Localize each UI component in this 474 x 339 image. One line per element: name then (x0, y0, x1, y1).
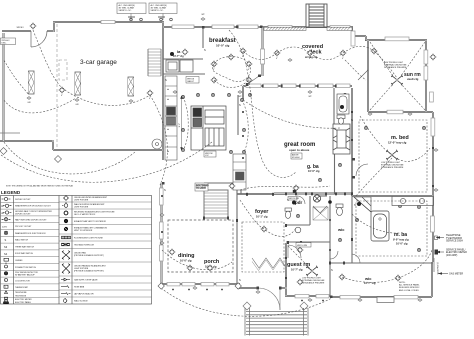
wire deck to sun (374, 51, 397, 78)
furnace circle (152, 139, 162, 149)
window guest bottom 2 (316, 295, 329, 298)
wall wic left (329, 196, 331, 297)
svg-text:TO LNDG: TO LNDG (196, 188, 206, 190)
svg-text:w/ t&g clg: w/ t&g clg (305, 55, 318, 59)
svg-text:S3: S3 (4, 245, 8, 249)
window dining left 2 (160, 222, 164, 239)
light guest closet (297, 247, 304, 254)
garage front diamonds (0, 148, 62, 163)
front door swing (258, 288, 280, 310)
front entry steps (243, 288, 308, 336)
svg-text:WP/GFI: WP/GFI (17, 27, 24, 29)
window guest bottom 1 (295, 295, 309, 298)
wall garage bottom (53, 149, 163, 151)
wire right wall (398, 250, 432, 278)
svg-text:(2) 20A CKTS: (2) 20A CKTS (436, 262, 439, 275)
window dining left 1 (160, 188, 164, 205)
window greatroom wall 3 (281, 84, 296, 87)
guest rm boxed label (296, 243, 311, 248)
legend left texts (15, 199, 52, 304)
light breakfast 1 (211, 61, 218, 68)
wall house top (breakfast/deck) (163, 26, 353, 28)
svg-text:GAS SUPPLY WITH VALVE: GAS SUPPLY WITH VALVE (74, 278, 98, 281)
bay window seat front (252, 258, 285, 271)
service panel note (436, 251, 444, 253)
window dining left 3 (160, 245, 164, 261)
svg-text:CAB HT: CAB HT (187, 80, 195, 83)
window porch bottom 2 (182, 283, 195, 286)
svg-text:foyer: foyer (255, 209, 269, 215)
svg-text:LEGEND: LEGEND (1, 190, 21, 195)
svg-text:(PROVIDE GUIDANCE SUPPORT): (PROVIDE GUIDANCE SUPPORT) (74, 254, 104, 257)
svg-text:W/GUIDANCE PRE-WIRE: W/GUIDANCE PRE-WIRE (302, 281, 325, 284)
light breakfast 5 (246, 77, 253, 84)
back stairs (148, 49, 161, 76)
svg-text:A.C. CHILLER(S): A.C. CHILLER(S) (119, 4, 135, 7)
wall stub right of garage entry door (47, 30, 54, 32)
wire breakfast loop (212, 57, 250, 82)
laundry appliances (166, 60, 193, 72)
svg-text:TELE AND INTERCOM: TELE AND INTERCOM (74, 244, 94, 247)
wall deck right corner (352, 28, 366, 36)
svg-text:porch: porch (204, 259, 220, 265)
window breakfast top 1 (172, 25, 194, 29)
wall laundry/breakfast (202, 27, 204, 48)
recessed pdr (296, 214, 299, 217)
wall mba top (352, 195, 433, 197)
wire sunroom entry (345, 60, 366, 80)
svg-text:S4: S4 (4, 252, 8, 256)
wall guest bottom (285, 295, 330, 297)
svg-text:GFI: GFI (75, 104, 79, 106)
svg-text:DUPLEX OUTLET: DUPLEX OUTLET (15, 214, 31, 216)
wall garage bottom left (0, 140, 54, 142)
light wic low 1 (339, 274, 346, 281)
legend left row lines (1, 202, 60, 297)
legend left symbols (1, 197, 11, 303)
entry columns (243, 302, 308, 310)
wall dining/porch bottom (160, 283, 240, 285)
svg-text:10'-0" clg: 10'-0" clg (180, 259, 192, 263)
left edge boxed label (1, 38, 16, 45)
svg-text:dining: dining (178, 253, 195, 259)
wall dining left (161, 183, 163, 284)
svg-text:ELECTRIC PANEL: ELECTRIC PANEL (15, 301, 31, 304)
svg-text:m. ba: m. ba (394, 232, 407, 238)
svg-text:SERVICE DISH: SERVICE DISH (446, 240, 463, 243)
window greatroom wall 2 (263, 84, 278, 87)
recessed great room (248, 93, 251, 96)
svg-text:36" MIN. CLEAR: 36" MIN. CLEAR (151, 7, 167, 10)
light garage door (30, 23, 37, 30)
gba fixtures (337, 94, 349, 124)
legend right row lines (59, 202, 152, 297)
svg-text:db: db (167, 151, 169, 153)
kitchen cabinets column (152, 76, 177, 160)
porch wall end diamonds (158, 283, 241, 289)
light stair (229, 183, 236, 190)
svg-text:open to above: open to above (289, 148, 310, 152)
window breakfast top 3 (237, 25, 258, 29)
wire garage to kitchen (150, 95, 167, 185)
wire garage big sweep (1, 142, 212, 182)
light sunrm corner (430, 54, 437, 61)
window wall jamb ticks (262, 85, 337, 88)
light wic low 2 (395, 275, 402, 282)
wall mbed right exterior (432, 112, 434, 262)
kitchen dimension line (179, 96, 183, 150)
recessed gba (318, 178, 321, 181)
svg-text:VER 10 RM: VER 10 RM (297, 245, 307, 247)
svg-text:wic: wic (364, 276, 372, 281)
recessed kitchen (181, 95, 184, 98)
wall dots (161, 111, 434, 279)
wall guest top (286, 241, 330, 243)
fireplace (333, 124, 350, 154)
light breakfast 2 (228, 54, 235, 61)
window porch bottom 4 (216, 283, 229, 286)
wall left-wing left (3, 33, 5, 141)
fan guest (306, 266, 318, 277)
wall garage bottom step (52, 140, 54, 150)
svg-text:ELECTRIC METER: ELECTRIC METER (15, 299, 32, 301)
extra jamb ticks (162, 26, 353, 299)
window greatroom wall 4 (300, 84, 315, 87)
wall great room left upper (242, 86, 244, 100)
light garage 1 (59, 87, 66, 94)
kitchen island (191, 106, 226, 150)
counter line left wing (0, 132, 20, 134)
svg-text:WEATHERPROOF JUNCTION BOX: WEATHERPROOF JUNCTION BOX (15, 232, 46, 235)
carport posts (29, 71, 134, 96)
garage bay divider dashed (57, 24, 67, 148)
svg-text:TELEVISION: TELEVISION (15, 296, 27, 298)
switch marks (165, 78, 167, 82)
svg-text:W/GUIDANCE PRE-WIRE: W/GUIDANCE PRE-WIRE (384, 66, 407, 69)
svg-text:3-car garage: 3-car garage (80, 59, 117, 66)
svg-text:db: db (167, 129, 169, 131)
svg-text:DISC.: DISC. (2, 43, 8, 45)
wire mbed (360, 116, 430, 161)
svg-text:12'-0" tray clg: 12'-0" tray clg (388, 141, 407, 145)
svg-text:42 HIGH: 42 HIGH (292, 157, 300, 159)
svg-text:WALL SWITCH: WALL SWITCH (15, 239, 29, 242)
svg-text:CHIMES: CHIMES (15, 260, 23, 262)
wire wic low (342, 277, 398, 282)
svg-text:VERIFY LOC.: VERIFY LOC. (151, 10, 164, 12)
svg-text:36" MIN. CLEAR: 36" MIN. CLEAR (119, 7, 135, 10)
svg-text:220 VOLT OUTLET: 220 VOLT OUTLET (15, 226, 32, 228)
light entry out (297, 279, 304, 286)
wire foyer-dining (162, 250, 232, 270)
window sunroom top (385, 37, 409, 41)
wall garage right (162, 22, 164, 160)
svg-text:LOC: LOC (205, 155, 210, 157)
svg-text:wic: wic (337, 227, 345, 232)
vanity mba (392, 197, 433, 206)
window mbed right (431, 118, 435, 136)
window wic bottom 2 (394, 296, 418, 299)
chimney (306, 4, 327, 27)
svg-text:GFI: GFI (1, 213, 4, 215)
svg-text:10'-1" clg: 10'-1" clg (256, 215, 268, 219)
wall kitchen right run (237, 95, 239, 135)
wire foyer (240, 200, 296, 236)
svg-text:TELEPHONE: TELEPHONE (15, 292, 27, 294)
wire deck s4 (343, 46, 374, 53)
wire guest (288, 246, 312, 271)
recessed mba (355, 218, 358, 221)
toilet pdr (285, 208, 292, 218)
fan note m.bed (381, 162, 404, 169)
window porch bottom 3 (201, 283, 214, 286)
wire mbed low (356, 158, 392, 196)
vault sunrm diagonals (370, 42, 425, 110)
wall pdr right (309, 196, 311, 225)
light foyer (261, 226, 268, 233)
toilet m.ba (336, 204, 343, 216)
wall foyer west upper (240, 155, 242, 194)
window greatroom wall 6 (336, 84, 350, 87)
jamb ticks gallery wall (246, 75, 355, 290)
svg-text:THERMOSTAT: THERMOSTAT (15, 286, 29, 289)
svg-text:10'-0" clg: 10'-0" clg (396, 242, 408, 246)
svg-text:db: db (167, 89, 169, 91)
meter symbols on wall (435, 250, 439, 255)
light breakfast 4 (211, 77, 218, 84)
svg-text:S: S (5, 238, 7, 242)
wall gba left (333, 88, 335, 124)
svg-text:HALF SWITCHED DUPLEX OUTLET: HALF SWITCHED DUPLEX OUTLET (15, 218, 47, 221)
wire breakfast lower (214, 80, 249, 88)
wall left-wing top (2, 30, 31, 32)
tiny outlet labels (17, 14, 313, 106)
svg-text:9'-0" tray clg: 9'-0" tray clg (393, 238, 409, 242)
wall hall top (foyer north) (237, 193, 286, 195)
svg-text:LIGHT FIXTURE: LIGHT FIXTURE (74, 199, 89, 201)
window sunroom right 1 (424, 50, 428, 64)
wall wic/mba divider (351, 196, 353, 263)
light deck 2 (274, 50, 281, 57)
wall guest left (285, 243, 287, 296)
door breakfast-deck angled (247, 76, 259, 85)
gas meter note (438, 273, 448, 275)
window deck top right (330, 26, 350, 30)
tray m.bed (359, 120, 427, 192)
svg-text:220V: 220V (2, 226, 8, 228)
tub m.ba (371, 211, 389, 241)
wire deck s1 (243, 51, 277, 60)
light porch (207, 265, 214, 272)
wall step at x54 (53, 22, 55, 32)
wall sunroom right (425, 40, 427, 112)
wall pdr bottom (286, 224, 310, 226)
porch window dots (172, 289, 324, 302)
stair note box (195, 183, 208, 191)
light deck 1 (240, 48, 247, 55)
svg-text:9'-2": 9'-2" (179, 123, 181, 128)
wall breakfast bay right (262, 27, 264, 76)
wire greatroom long (229, 30, 296, 177)
wall gba left lower (334, 154, 336, 194)
wall mba/wic right join (431, 262, 433, 297)
fan note sunrm (384, 62, 407, 69)
window porch bottom 1 (167, 283, 180, 286)
outlet marks (27, 97, 31, 99)
main stairs (195, 183, 228, 218)
fan m.bed (386, 150, 398, 161)
bump-out bottom right (377, 297, 394, 303)
legend frame (1, 196, 152, 305)
svg-text:ALL SERVICE PANEL: ALL SERVICE PANEL (399, 284, 420, 287)
svg-text:db: db (167, 99, 169, 101)
light dining (169, 249, 176, 256)
svg-text:PUSHBUTTON SWITCH: PUSHBUTTON SWITCH (15, 267, 37, 269)
wire mba (352, 214, 400, 233)
wire kitchen arcs (183, 97, 188, 150)
wall front right of door (280, 287, 287, 289)
svg-text:GE# L-5 VAPOR PROOF: GE# L-5 VAPOR PROOF (74, 213, 96, 216)
svg-text:W/GUIDANCE PRE-WIRE: W/GUIDANCE PRE-WIRE (381, 166, 404, 169)
svg-text:220V A.C.: 220V A.C. (2, 39, 11, 42)
wire carport (4, 60, 76, 113)
wire greatroom cross (243, 100, 340, 128)
wall sunroom bottom (368, 111, 433, 113)
window mba right (431, 216, 435, 232)
light breakfast 3 (246, 61, 253, 68)
wire deck s3 (310, 53, 343, 60)
recessed wic up (338, 238, 341, 241)
wire bottom sweep (161, 288, 332, 316)
svg-text:VER 10 RM: VER 10 RM (289, 198, 299, 200)
wire deck s2 (277, 47, 310, 53)
svg-text:A.C. CHILLER(S): A.C. CHILLER(S) (151, 4, 167, 7)
ac units on wall (128, 16, 165, 18)
light laundry (182, 49, 189, 56)
wall sunroom top (366, 36, 427, 40)
wall great/mbed divider exterior (351, 88, 353, 196)
svg-text:vault clg: vault clg (407, 77, 419, 81)
sink pdr (295, 227, 301, 233)
svg-text:WALL SCONCE: WALL SCONCE (74, 299, 88, 302)
legend right texts (74, 196, 115, 302)
wire garage interior (33, 30, 150, 105)
light deck 5 (371, 48, 378, 55)
wall sunroom left (367, 40, 369, 112)
door foyer closet (bifold) (313, 206, 327, 213)
deck fixture labels (61, 56, 344, 100)
window greatroom wall 5 (318, 84, 333, 87)
window greatroom wall 1 (246, 84, 261, 87)
svg-text:W/ BATTERY BACKUP: W/ BATTERY BACKUP (15, 274, 35, 277)
window breakfast bay right (261, 31, 355, 64)
svg-text:BOX TREAD: BOX TREAD (196, 184, 209, 187)
svg-text:pdr: pdr (295, 200, 302, 205)
tray m.ba (356, 201, 427, 256)
svg-text:10'-0" clg: 10'-0" clg (216, 44, 229, 48)
wall garage top (53, 21, 164, 23)
svg-text:NOTE: THIS LEGEND IS TYPICAL A: NOTE: THIS LEGEND IS TYPICAL AND MAY SHO… (6, 185, 74, 188)
wall laundry bottom (163, 58, 203, 60)
svg-text:10'-7" clg: 10'-7" clg (291, 268, 303, 272)
fan sun rm (391, 75, 403, 86)
svg-text:10'-7" clg: 10'-7" clg (173, 55, 184, 58)
svg-text:EXHAUST FAN VENT TO EXTERIOR: EXHAUST FAN VENT TO EXTERIOR (74, 220, 107, 223)
svg-text:(200 AMP): (200 AMP) (446, 254, 457, 257)
svg-text:DUPLEX OUTLET: DUPLEX OUTLET (15, 199, 31, 201)
svg-text:GAS METER: GAS METER (449, 273, 463, 276)
wall hall/stairs (204, 183, 237, 220)
wall wic bottom exterior (330, 296, 432, 298)
wet bar (233, 154, 246, 190)
light deck 3 (307, 50, 314, 57)
shower m.ba (354, 197, 371, 212)
svg-text:FLUORESCENT LIGHT FIXTURE: FLUORESCENT LIGHT FIXTURE (74, 237, 103, 239)
kitchen db boxes (186, 77, 216, 158)
porch ceiling dashed rect (168, 220, 233, 272)
light hall (293, 185, 300, 192)
wall white cores (0, 22, 433, 297)
svg-text:AND LOCAL CODES: AND LOCAL CODES (399, 289, 419, 292)
deck north hatched wall (264, 27, 352, 30)
svg-text:VENT TO EXTERIOR: VENT TO EXTERIOR (74, 230, 93, 232)
svg-text:10'-0" clg: 10'-0" clg (308, 169, 320, 173)
light garage 2 (147, 90, 154, 97)
svg-text:LIGHT FIXTURE: LIGHT FIXTURE (74, 206, 89, 208)
wall kitchen top (163, 73, 205, 75)
svg-text:10'-7" clg: 10'-7" clg (364, 281, 376, 285)
window breakfast top 2 (212, 25, 234, 29)
svg-text:THREE WAY SWITCH: THREE WAY SWITCH (15, 245, 35, 248)
hall closet X (313, 207, 328, 220)
svg-text:FOUR WAY SWITCH: FOUR WAY SWITCH (15, 252, 34, 255)
svg-text:(PROVIDE GUIDANCE SUPPORT): (PROVIDE GUIDANCE SUPPORT) (74, 269, 104, 272)
svg-text:CO2 DETECTOR: CO2 DETECTOR (15, 280, 30, 282)
window garage top small (101, 20, 115, 23)
wire hall (240, 186, 330, 190)
svg-text:GFI: GFI (27, 102, 31, 104)
svg-text:VERIFY LOC.: VERIFY LOC. (119, 10, 132, 12)
wall great room top (window wall under deck) (243, 85, 352, 87)
telephone/tv service note (436, 237, 444, 239)
window sunroom right 2 (424, 66, 428, 80)
window wic bottom 1 (340, 296, 360, 299)
fan note guest (302, 278, 325, 285)
recessed mbed sides (364, 126, 367, 129)
window deck top (268, 26, 292, 30)
wall entry front (238, 284, 258, 288)
svg-text:HOSE BIBB: HOSE BIBB (74, 286, 85, 288)
garage entry door swing (31, 31, 47, 47)
wall foyer left (236, 220, 238, 284)
svg-text:WEATHERPROOF GFI DUPLEX OUTLET: WEATHERPROOF GFI DUPLEX OUTLET (15, 205, 52, 208)
tray foyer (242, 222, 284, 272)
svg-text:LAP VAPOR SEAL GFI: LAP VAPOR SEAL GFI (74, 292, 94, 295)
hall fixtures row (170, 52, 361, 206)
legend right symbols (61, 196, 71, 303)
wire garage bottom sweep (4, 142, 135, 174)
wall mba bottom / wic top (330, 262, 433, 264)
wall pdr top (274, 193, 352, 195)
light deck 4 (340, 50, 347, 57)
